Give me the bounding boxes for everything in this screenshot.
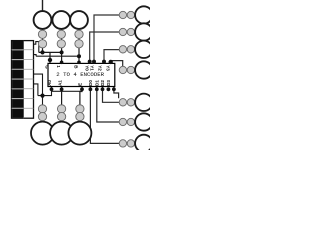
pin dot top: row3 pin [102,60,106,64]
pin dot bottom: spare pin [95,87,99,91]
switch 5 black knob [12,80,23,89]
wire from switch cell 5 to bottom bracket [34,84,38,96]
svg-text:2 TO 4 ENCODER: 2 TO 4 ENCODER [56,71,104,78]
wire from switch cell 1 to bus A [34,42,39,53]
svg-text:Y3: Y3 [105,65,110,71]
right probe row 3: lamp L6 [119,41,152,58]
wire column1 vertical through top probes to bus A [42,26,44,52]
wire column3 vertical from probes to IC pin [78,26,80,63]
wire right row 6 from IC bottom pin [97,87,120,123]
pin dot bottom: bracket pin [50,87,54,91]
wire stub above top probe column 1 [42,0,44,11]
wire elbow from IC pin to right row 5 pad [114,87,119,99]
right probe row 2: lamp L5 [119,23,152,40]
wire bus B [36,55,79,57]
top probe column 1: lamp L1 [34,11,52,48]
pin dot bottom: column3 pin [80,87,84,91]
pin dot top: row4 pin [109,60,113,64]
switch 3 black knob [12,60,23,69]
bottom probe column 1: lamp L11 [31,105,54,145]
wire from switch cell 4 down to bottom column 1 [34,74,43,104]
switch 8 black knob [12,109,23,118]
wire right row 7 from IC bottom pin [90,87,119,144]
junction on bus A at column 1 [40,50,44,54]
switch 4 black knob [12,70,23,79]
right probe row 1: lamp L4 [119,6,152,23]
wire drop from bus A to IC pin 1 [49,52,51,63]
svg-text:Y0: Y0 [84,65,89,71]
wire column2 vertical from probes to IC pin [61,26,63,63]
wire right row 3 to IC top pin [104,50,120,64]
wire bottom bracket to IC pin [38,87,52,96]
bottom probe column 3: lamp L13 [68,105,91,145]
wire right row 2 to IC top pin [90,32,120,63]
svg-text:Y1: Y1 [90,65,95,71]
wire right row 4 from IC top pin [111,61,123,67]
svg-text:D0: D0 [88,80,93,86]
wire bus A [39,51,62,53]
pin dot bottom: row7 pin [89,87,93,91]
wire bus under IC bottom [52,90,83,92]
wire right row 1 to IC top pin [94,15,120,63]
wire bottom column 2 vertical [61,87,63,105]
right probe row 5: lamp L8 [119,94,152,111]
right probe row 4: lamp L7 [119,61,152,78]
junction on bus B at column 3 [77,54,81,58]
switch 7 black knob [12,99,23,108]
junction bottom bracket at column 1 [40,94,44,98]
svg-text:A0: A0 [47,80,52,86]
bottom probe column 2: lamp L12 [50,105,73,145]
wire from switch cell 2 to bus B [34,55,37,57]
pin dot bottom: elbow pin [112,87,116,91]
top probe column 3: lamp L3 [70,11,88,48]
svg-text:D2: D2 [100,80,105,86]
svg-text:1: 1 [56,65,61,68]
pin dot top: column3 pin [77,61,81,65]
pin dot bottom: row6 pin [107,87,111,91]
svg-text:E: E [78,83,83,86]
junction on pin-1 drop [48,58,52,62]
pin dot top: row1 pin [92,60,96,64]
right probe row 7: lamp L10 [119,135,152,152]
svg-text:Y2: Y2 [98,65,103,71]
DIP switch bank S1 [12,41,34,119]
svg-text:G: G [45,65,50,69]
pin dot bottom: column2 pin [60,87,64,91]
wire right row 5 from IC bottom pin [103,87,120,103]
svg-text:D1: D1 [94,80,99,86]
pin dot bottom: row5 pin [101,87,105,91]
right probe row 6: lamp L9 [119,113,152,130]
op IC U1: 2 TO 4 ENCODER [45,63,115,86]
top probe column 2: lamp L2 [52,11,70,48]
wire bottom column 3 vertical with jog [80,87,82,105]
switch 6 black knob [12,89,23,98]
switch 2 black knob [12,50,23,59]
pin dot top: column2 pin [60,61,64,65]
svg-text:D3: D3 [106,80,111,86]
pin dot top: row2 pin [88,60,92,64]
junction on bus A at column 2 [60,50,64,54]
svg-text:A1: A1 [57,80,62,86]
switch 1 black knob [12,41,23,50]
